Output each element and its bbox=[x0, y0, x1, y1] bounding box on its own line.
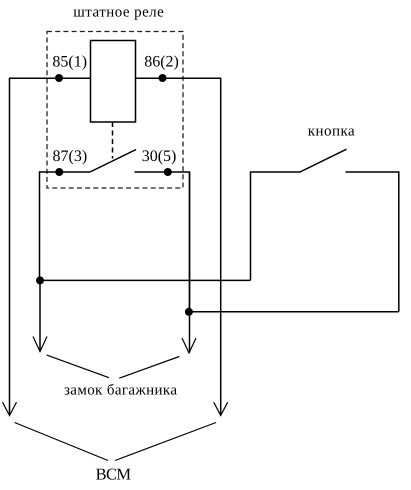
relay actuator dashed link bbox=[112, 122, 114, 159]
node: junction on pin 85 wire bbox=[55, 74, 63, 82]
wire: pin 30 stub bbox=[135, 172, 190, 312]
relay coil bbox=[91, 41, 136, 123]
arrowhead: left BCM arrow bbox=[3, 402, 17, 415]
wire: 87 junction drop to trunk-lock arrow bbox=[39, 280, 41, 351]
pushbutton: left terminal wire bbox=[251, 172, 301, 280]
wire: 30 junction to button right leg bbox=[189, 311, 399, 313]
svg-text:ВСМ: ВСМ bbox=[96, 465, 132, 484]
wire: pin 87 stub bbox=[40, 172, 91, 280]
wire: 30 junction drop to trunk-lock arrow bbox=[189, 172, 191, 353]
wire: left drop from 85 to BCM arrow bbox=[9, 78, 11, 415]
node: junction 30/button bbox=[185, 308, 193, 316]
leader line: right to BCM label bbox=[115, 423, 216, 461]
arrowhead: right trunk-lock arrow bbox=[182, 338, 196, 353]
svg-text:кнопка: кнопка bbox=[308, 124, 355, 140]
arrowhead: left trunk-lock arrow bbox=[33, 337, 47, 352]
node: junction on pin 87 wire bbox=[55, 168, 63, 176]
leader line: left to BCM label bbox=[15, 423, 108, 461]
wire: pin 85 to coil bbox=[10, 77, 91, 79]
svg-text:87(3): 87(3) bbox=[53, 148, 88, 165]
node: junction 87/button bbox=[36, 276, 44, 284]
wire: 87 junction to button left leg bbox=[40, 279, 251, 281]
svg-text:86(2): 86(2) bbox=[144, 53, 179, 70]
node: junction on pin 86 wire bbox=[159, 74, 167, 82]
wire: coil to pin 86 corner bbox=[136, 77, 221, 79]
wire: right drop from 86 to BCM arrow bbox=[220, 78, 222, 415]
svg-text:30(5): 30(5) bbox=[142, 148, 177, 165]
relay dashed enclosure bbox=[47, 32, 183, 189]
pushbutton: contact blade bbox=[300, 149, 347, 172]
leader line: left to trunk-lock label bbox=[47, 355, 109, 378]
svg-text:замок багажника: замок багажника bbox=[64, 383, 177, 399]
svg-text:85(1): 85(1) bbox=[52, 53, 87, 70]
leader line: right to trunk-lock label bbox=[119, 357, 179, 379]
arrowhead: right BCM arrow bbox=[214, 402, 228, 415]
pushbutton: right terminal wire bbox=[346, 172, 399, 312]
svg-text:штатное реле: штатное реле bbox=[73, 4, 164, 20]
node: junction on pin 30 wire bbox=[164, 168, 172, 176]
relay switch contact blade bbox=[90, 150, 136, 173]
